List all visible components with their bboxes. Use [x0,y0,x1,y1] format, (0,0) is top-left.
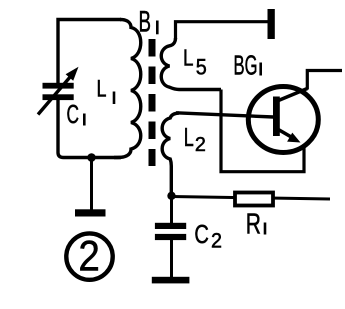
ground (bottom) [152,277,190,284]
svg-text:R: R [246,208,261,240]
wire: junction to C2 [170,196,173,223]
node: junction under L2 [167,192,175,200]
capacitor C1 (variable) [38,67,84,129]
svg-text:5: 5 [196,55,207,80]
svg-text:L: L [184,124,194,152]
transformer core B1 [139,5,158,166]
inductor L2 [162,113,206,192]
svg-text:C: C [194,219,209,249]
svg-text:L: L [97,76,107,103]
transistor BG1 [234,50,319,153]
svg-text:2: 2 [195,134,206,156]
svg-text:BG: BG [234,50,258,81]
wire: L5 top to terminal [176,22,268,39]
wire: collector up and right [307,71,342,90]
wire top-left: loop top wire and upper left vertical [58,20,121,84]
svg-text:2: 2 [211,230,222,253]
resistor R1 [172,193,331,241]
svg-text:B: B [139,5,152,38]
wire: L5 bottom down, emitter return loop [221,90,304,172]
svg-text:C: C [67,101,80,129]
inductor L1 [97,20,141,158]
wire: base wire (L2 top to transistor base) [176,113,274,117]
label 2 (circled figure number) [66,233,112,280]
ground (left) [75,209,106,216]
wire lower-left: lower left vertical and loop bottom wire [58,100,121,158]
wire: C2 to ground [170,240,173,277]
capacitor C2 [155,219,222,252]
node: junction on loop bottom wire [87,153,96,162]
inductor L5 [161,38,221,90]
svg-text:2: 2 [78,233,100,280]
terminal bar (top right) [268,9,275,39]
wire: junction down to ground [90,158,93,211]
svg-text:L: L [183,45,194,71]
